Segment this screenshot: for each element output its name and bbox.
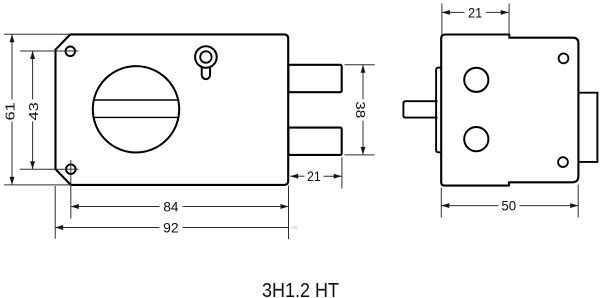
lock front view: main plate outline xyxy=(56,34,289,185)
extension line 21 side right xyxy=(508,4,510,39)
extension line 43 top through screw hole xyxy=(20,50,79,52)
dimension line 92 xyxy=(55,227,159,229)
keyhole inner circle xyxy=(200,51,212,63)
side view: upper large hole xyxy=(464,68,488,92)
screw hole top-left xyxy=(66,47,76,57)
screw hole bottom-left xyxy=(66,164,76,174)
arrow 21 bolt right xyxy=(334,174,342,179)
arrow 61 down xyxy=(10,177,15,185)
dimension line 38 xyxy=(362,65,364,100)
dimension line 21 bolt xyxy=(290,175,304,177)
extension line 21 side left xyxy=(441,4,443,36)
svg-text:50: 50 xyxy=(501,198,516,214)
arrow 43 up xyxy=(30,51,35,59)
svg-text:21: 21 xyxy=(307,168,321,184)
arrow 92 right ghost xyxy=(289,225,297,230)
arrow 38 up xyxy=(361,65,366,73)
arrow 21 bolt left xyxy=(290,174,298,179)
side view: lower large hole xyxy=(464,127,488,151)
arrow 21 side left xyxy=(442,10,450,15)
side view: bolt xyxy=(403,101,437,117)
dimension line 43 xyxy=(32,51,34,100)
dimension line 21 side xyxy=(442,11,465,13)
extension line 84/92 right (plate edge extended) xyxy=(288,186,290,240)
svg-text:92: 92 xyxy=(163,219,179,235)
arrow 50 left xyxy=(441,203,449,208)
extension line 61 top xyxy=(4,33,70,35)
side view: faceplate strip xyxy=(436,68,441,153)
svg-text:61: 61 xyxy=(3,102,18,120)
cylinder large circle xyxy=(93,66,179,152)
extension line 61 bottom xyxy=(4,184,71,186)
side view: back box protrusion right xyxy=(578,93,597,162)
arrow 61 up xyxy=(10,34,15,42)
arrow 21 side right xyxy=(501,10,509,15)
cylinder chord line upper xyxy=(94,99,178,101)
cylinder chord line lower xyxy=(94,116,179,118)
svg-text:43: 43 xyxy=(26,102,41,120)
dimension line 50 xyxy=(441,205,498,207)
side view: lock body outline xyxy=(441,35,578,186)
keyhole stem xyxy=(202,67,210,79)
svg-text:21: 21 xyxy=(468,4,482,20)
extension line 43 bottom through screw hole xyxy=(20,168,79,170)
arrow 84 left xyxy=(71,204,79,209)
side view: small hole bottom-right xyxy=(558,157,568,167)
extension line 84 from screw hole xyxy=(70,160,72,218)
svg-text:3Н1.2 НТ: 3Н1.2 НТ xyxy=(262,280,339,298)
arrow 38 down xyxy=(361,147,366,155)
extension line 50 right xyxy=(577,185,579,218)
extension line 84/92 left (plate edge extended) xyxy=(54,186,56,239)
arrow 43 down xyxy=(30,161,35,169)
arrow 50 right xyxy=(570,203,578,208)
extension line 21 bolt right xyxy=(341,158,343,189)
svg-text:38: 38 xyxy=(353,101,368,118)
extension line 50 left xyxy=(440,188,442,218)
svg-text:84: 84 xyxy=(163,198,178,214)
arrow 92 left xyxy=(55,225,63,230)
extension line 38 top xyxy=(345,64,375,66)
arrow 84 right xyxy=(281,204,289,209)
keyhole outer circle xyxy=(195,46,217,68)
dimension line 84 xyxy=(71,206,160,208)
bolt lower (front view) xyxy=(288,128,341,155)
dimension line 61 xyxy=(11,34,13,99)
side view: small hole top-right xyxy=(559,54,569,64)
bolt upper (front view) xyxy=(288,65,341,92)
extension line 38 bottom xyxy=(345,154,375,156)
